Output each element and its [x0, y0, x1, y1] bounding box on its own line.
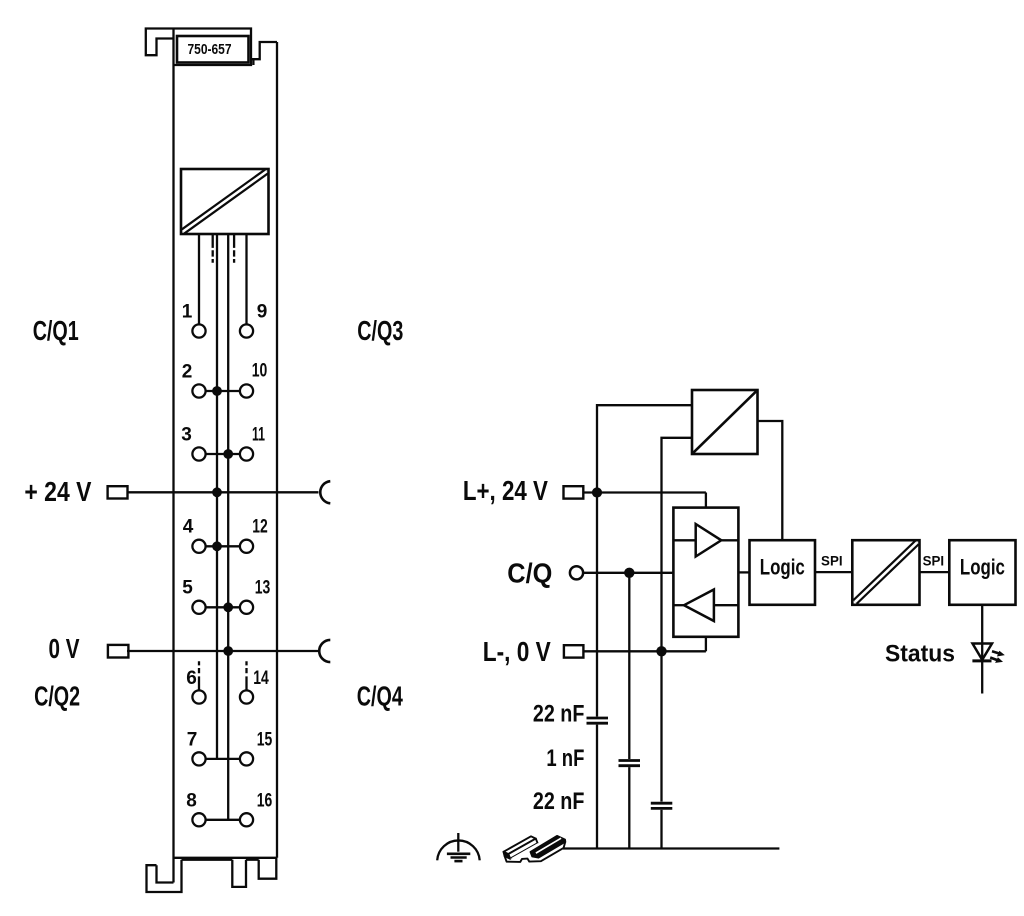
row 8 wire: [205, 819, 240, 821]
pin 14 dashed stub: [245, 661, 247, 690]
pin 1: [192, 324, 205, 337]
row 3 wire: [205, 453, 240, 455]
L- wire: [583, 650, 706, 652]
svg-text:C/Q3: C/Q3: [357, 315, 403, 346]
cap3 22nF: [651, 802, 673, 805]
driver box: [673, 508, 738, 637]
row 5 wire: [205, 606, 240, 608]
svg-text:16: 16: [257, 791, 273, 812]
svg-text:7: 7: [187, 730, 198, 751]
C/Q input circle: [570, 566, 583, 579]
Logic box 2: [949, 540, 1015, 605]
Logic box 1: [750, 540, 816, 605]
pin 3: [192, 447, 205, 460]
+24V feed line: [128, 491, 319, 493]
SPI wire 2: [920, 571, 950, 573]
svg-text:C/Q: C/Q: [507, 558, 552, 589]
0V right power-jumper arc: [319, 640, 330, 662]
module bottom edge: [174, 857, 278, 859]
pin 13: [240, 601, 253, 614]
C/Q wire down: [628, 573, 630, 759]
DC/DC output wire to Logic1: [758, 421, 783, 540]
junction row4-bus1: [212, 541, 222, 551]
bottom sub-edge line 2: [246, 859, 259, 861]
SPI isolator box: [852, 540, 919, 605]
driver output wire: [738, 571, 749, 573]
pin 6: [192, 690, 205, 703]
label box outer: [174, 29, 252, 66]
pin 15: [240, 752, 253, 765]
wire L+ down into driver: [705, 493, 707, 508]
svg-text:SPI: SPI: [923, 552, 945, 568]
module body right edge: [276, 42, 278, 858]
svg-text:C/Q4: C/Q4: [357, 681, 403, 712]
rail flange 1 end cap: [504, 852, 511, 859]
0V terminal box: [108, 645, 128, 658]
rail flange 1 top face: [504, 836, 536, 854]
L- wire up into driver bottom: [705, 637, 707, 652]
cap2 1nF: [619, 759, 641, 762]
status LED: [973, 644, 993, 660]
pin 10: [240, 384, 253, 397]
rail flange 2 top highlight: [536, 838, 561, 853]
DC/DC converter box: [692, 390, 758, 454]
bottom sub-edge line: [182, 859, 233, 861]
wire: dashed stub right (C/Q3): [233, 234, 235, 263]
svg-text:1: 1: [182, 302, 193, 323]
wire: bus2 (0V): [227, 234, 229, 820]
svg-text:L-, 0 V: L-, 0 V: [483, 636, 551, 667]
junction +24V-bus1: [212, 487, 222, 497]
earth symbol: [457, 833, 459, 852]
rail channel floor: [510, 841, 559, 859]
pin 12: [240, 540, 253, 553]
pin 8: [192, 813, 205, 826]
junction row5-bus2: [223, 602, 233, 612]
bottom middle tab: [232, 860, 246, 887]
svg-text:2: 2: [182, 362, 193, 383]
SPI isolator double diagonal: [855, 543, 917, 603]
C/Q wire: [583, 572, 673, 574]
svg-text:22 nF: 22 nF: [533, 700, 585, 727]
L- wire down to cap3: [660, 651, 662, 801]
bottom right tab: [259, 858, 277, 879]
ground rail line: [563, 847, 779, 849]
SPI wire 1: [815, 571, 852, 573]
svg-text:4: 4: [183, 517, 194, 538]
svg-text:10: 10: [252, 361, 268, 382]
wire L+ up to DC/DC: [597, 405, 692, 492]
svg-text:Logic: Logic: [960, 554, 1005, 579]
pin 6 dashed stub: [198, 661, 200, 690]
junction L+: [592, 487, 602, 497]
svg-text:L+, 24 V: L+, 24 V: [463, 475, 548, 506]
L+ wire down to cap1: [596, 493, 598, 717]
svg-text:1 nF: 1 nF: [546, 745, 584, 772]
svg-text:5: 5: [182, 578, 193, 599]
junction L-: [656, 646, 666, 656]
wire: dashed stub left (C/Q1): [212, 234, 214, 263]
+24V terminal box: [108, 486, 128, 498]
bottom-left release tab: [147, 860, 182, 892]
pin 4: [192, 540, 205, 553]
svg-text:SPI: SPI: [821, 552, 843, 568]
row 4 wire: [205, 545, 240, 547]
L+ wire: [583, 491, 706, 493]
pin 14: [240, 690, 253, 703]
pin 7: [192, 752, 205, 765]
module top-right hook: [251, 42, 277, 65]
0V feed line: [127, 650, 319, 652]
svg-text:6: 6: [186, 668, 197, 689]
row 7 wire: [205, 758, 240, 760]
driver upper buffer line: [673, 539, 695, 541]
L+ terminal box: [564, 486, 584, 498]
driver upper triangle: [696, 524, 722, 557]
DIN rail 3D symbol: [504, 836, 566, 862]
LED arrows: [990, 651, 999, 660]
wire: bus1 (+24V): [216, 234, 218, 759]
rail flange 1 side face: [508, 839, 537, 859]
bottom-left tab inner notch: [157, 865, 174, 882]
cap3 lower wire: [660, 810, 662, 849]
rail flange 2 body: [531, 836, 566, 858]
cap1 22nF: [587, 717, 609, 720]
svg-text:0 V: 0 V: [49, 633, 80, 664]
junction 0V-bus2: [223, 646, 233, 656]
svg-text:11: 11: [252, 425, 265, 446]
svg-text:12: 12: [252, 517, 268, 538]
svg-text:15: 15: [257, 730, 273, 751]
wire: converter to pin 9: [245, 234, 247, 325]
LED wire: [981, 605, 983, 694]
svg-text:C/Q2: C/Q2: [34, 681, 80, 712]
wire: converter to pin 1: [198, 234, 200, 325]
DC/DC lower input wire: [662, 438, 693, 652]
svg-text:3: 3: [181, 425, 192, 446]
driver lower buffer line: [673, 604, 684, 606]
pin 5: [192, 601, 205, 614]
pin 9: [240, 324, 253, 337]
junction row3-bus2: [223, 449, 233, 459]
module body left edge: [172, 29, 174, 883]
pin 11: [240, 447, 253, 460]
svg-text:14: 14: [253, 668, 269, 689]
pin 16: [240, 813, 253, 826]
converter double diagonal: [183, 172, 267, 232]
junction C/Q: [624, 568, 634, 578]
svg-text:22 nF: 22 nF: [533, 788, 585, 815]
cap2 lower wire: [628, 767, 630, 848]
svg-text:13: 13: [255, 578, 271, 599]
pin 2: [192, 384, 205, 397]
DC/DC diagonal: [693, 391, 756, 452]
L- terminal box: [564, 645, 584, 657]
svg-text:9: 9: [257, 302, 268, 323]
svg-text:750-657: 750-657: [188, 41, 232, 58]
driver lower triangle: [684, 590, 714, 622]
label box inner: [177, 36, 249, 63]
row 2 wire: [205, 390, 240, 392]
svg-text:Status: Status: [885, 641, 955, 668]
+24V right power-jumper arc: [320, 481, 330, 503]
cap1 lower wire: [596, 725, 598, 849]
rail bottom outline: [505, 842, 566, 862]
svg-text:+ 24 V: + 24 V: [24, 476, 91, 507]
svg-text:8: 8: [186, 791, 197, 812]
junction row2-bus1: [212, 386, 222, 396]
converter box (isolated power) in module: [181, 169, 269, 234]
module top-left mounting hook: [146, 29, 174, 56]
svg-text:C/Q1: C/Q1: [33, 315, 79, 346]
svg-text:Logic: Logic: [760, 554, 805, 579]
